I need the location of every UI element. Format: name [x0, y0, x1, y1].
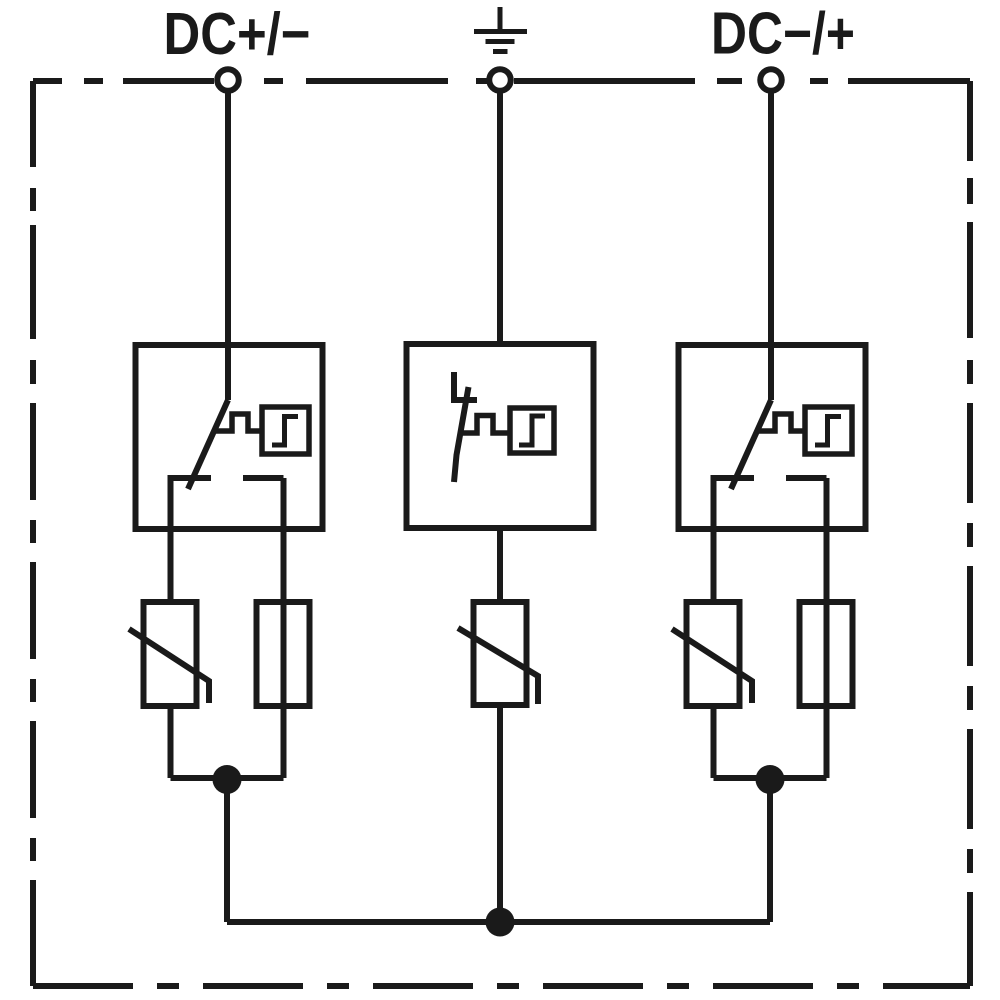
- svg-text:DC+/−: DC+/−: [164, 1, 311, 67]
- svg-text:DC−/+: DC−/+: [711, 1, 855, 67]
